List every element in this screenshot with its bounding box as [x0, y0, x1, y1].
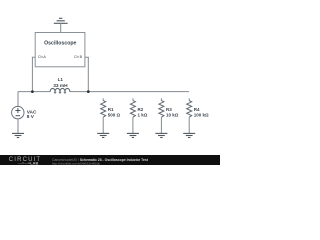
svg-text:Ch B: Ch B	[74, 55, 83, 59]
svg-text:33 mH: 33 mH	[53, 83, 68, 89]
svg-text:Ch A: Ch A	[38, 55, 46, 59]
svg-text:R1: R1	[108, 107, 114, 112]
svg-text:http://circuitlab.com/c64a512e: http://circuitlab.com/c64a512eb6b2p	[52, 161, 101, 165]
svg-text:R3: R3	[166, 107, 172, 112]
svg-text:500 Ω: 500 Ω	[108, 112, 121, 117]
svg-text:L1: L1	[58, 77, 64, 82]
svg-text:R2: R2	[138, 107, 144, 112]
svg-text:—≈—≡LAB: —≈—≡LAB	[18, 160, 38, 165]
svg-text:100 kΩ: 100 kΩ	[194, 112, 209, 117]
svg-text:R4: R4	[194, 107, 200, 112]
svg-text:1 kΩ: 1 kΩ	[138, 112, 148, 117]
svg-text:Oscilloscope: Oscilloscope	[44, 40, 76, 46]
svg-text:10 kΩ: 10 kΩ	[166, 112, 179, 117]
svg-text:8 V: 8 V	[27, 114, 35, 120]
